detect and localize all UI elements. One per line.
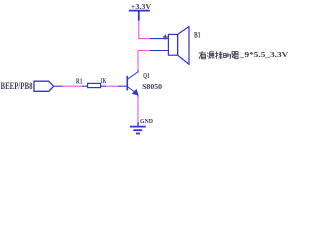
svg-text:BEEP/PB8: BEEP/PB8	[1, 81, 33, 91]
glyph qi	[232, 52, 239, 59]
svg-text:Q1: Q1	[143, 71, 150, 80]
svg-text:GND: GND	[140, 118, 153, 125]
glyph feng	[215, 51, 222, 59]
glyph yuan	[207, 52, 214, 59]
svg-text:S8050: S8050	[142, 82, 162, 91]
svg-text:+3.3V: +3.3V	[131, 2, 152, 11]
resistor R1	[82, 83, 106, 87]
port BEEP/PB8 symbol	[34, 81, 63, 91]
power +3.3V bar symbol	[129, 11, 150, 21]
ground symbol	[130, 122, 146, 134]
svg-text:1K: 1K	[101, 76, 107, 85]
wire +3.3V to buzzer plus pin	[139, 21, 150, 39]
plus sign at buzzer	[163, 35, 168, 40]
wire Q1 emitter to GND	[137, 97, 139, 123]
glyph ming	[224, 53, 231, 59]
port BEEP/PB8 label	[1, 81, 33, 91]
svg-text:_9*5.5_3.3V: _9*5.5_3.3V	[239, 50, 290, 59]
wire buzzer minus pin to Q1 collector	[138, 51, 150, 71]
svg-text:B1: B1	[194, 29, 201, 39]
buzzer B1 symbol (speaker)	[150, 27, 189, 65]
wire R1 to Q1 base	[106, 85, 118, 87]
transistor Q1 (NPN S8050)	[118, 70, 138, 97]
glyph you	[199, 51, 206, 59]
wire port to R1	[63, 85, 83, 87]
svg-text:R1: R1	[76, 76, 83, 85]
label active buzzer chinese text	[199, 51, 239, 59]
